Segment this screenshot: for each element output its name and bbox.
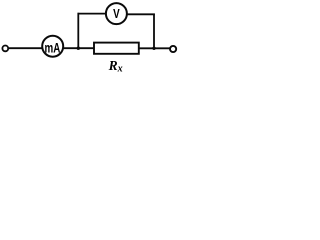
resistor Rx (box) <box>94 43 139 54</box>
voltmeter V <box>106 3 127 24</box>
wire (left terminal to ammeter) <box>9 47 42 49</box>
node junction left <box>77 47 80 50</box>
wire (resistor to right terminal) <box>139 47 170 49</box>
ammeter mA <box>42 36 63 57</box>
terminal T1 (left input) <box>2 46 8 52</box>
terminal T2 (right output) <box>170 46 176 52</box>
svg-text:V: V <box>113 8 120 22</box>
svg-text:mA: mA <box>45 40 61 56</box>
wire (left vertical branch up to voltmeter) <box>77 13 79 49</box>
wire (right vertical branch down) <box>153 14 155 50</box>
node junction right <box>152 47 155 50</box>
wire (ammeter to resistor box, with tap to voltmeter branch) <box>63 47 94 49</box>
wire (top right horizontal from voltmeter) <box>128 13 155 15</box>
wire (top left horizontal to voltmeter) <box>78 13 106 15</box>
